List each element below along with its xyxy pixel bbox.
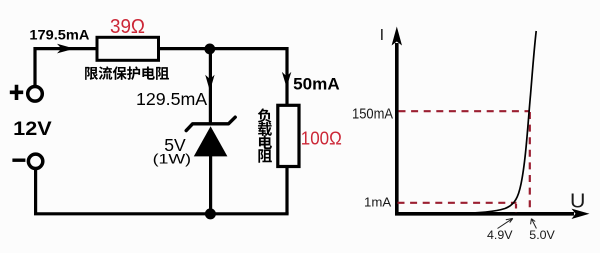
plus sign [10, 85, 23, 100]
svg-text:150mA: 150mA [352, 106, 393, 123]
wire middle branch down to zener [209, 49, 212, 123]
terminal - circle [28, 154, 42, 168]
resistor R2 load box [278, 105, 299, 166]
wire R2 to bottom rail [285, 167, 288, 214]
node junction top [204, 44, 215, 55]
label 负载电阻 vertical [258, 108, 272, 122]
zener D1 anode triangle [194, 126, 228, 156]
arrow current 50mA [282, 72, 291, 88]
leader arrow 5.0V [531, 219, 537, 229]
wire zener to bottom rail [209, 156, 212, 214]
svg-text:39Ω: 39Ω [110, 16, 145, 38]
axis I arrowhead [392, 27, 402, 46]
graph axis U (horizontal) [395, 212, 574, 216]
svg-text:(1W): (1W) [153, 152, 192, 168]
bottom rail wire [36, 169, 289, 214]
svg-text:100Ω: 100Ω [301, 127, 342, 148]
svg-text:50mA: 50mA [293, 75, 340, 94]
svg-text:5.0V: 5.0V [529, 228, 555, 242]
svg-text:12V: 12V [13, 118, 52, 140]
svg-text:129.5mA: 129.5mA [136, 89, 207, 109]
label 限流保护电阻 [85, 67, 98, 80]
dashed line 150mA level [399, 110, 529, 112]
svg-text:I: I [380, 27, 384, 44]
svg-text:U: U [570, 190, 585, 212]
wire R1 to top-right corner [159, 49, 288, 106]
svg-text:4.9V: 4.9V [487, 228, 513, 242]
arrow current 129.5mA [205, 75, 214, 91]
terminal + circle [28, 87, 43, 102]
dashed line 1mA level [398, 202, 517, 204]
arrow current 179.5mA [57, 44, 75, 54]
svg-text:179.5mA: 179.5mA [29, 27, 89, 43]
zener D1 cathode bar [186, 117, 235, 130]
leader arrow 4.9V [498, 218, 513, 228]
dashed line 4.9V vertical [515, 204, 517, 212]
diode IV curve [455, 31, 536, 214]
dashed line 5.0V vertical [529, 112, 531, 212]
wire top-left from + terminal up and right to R1 [35, 49, 97, 87]
axis U arrowhead [572, 209, 590, 219]
node junction bottom [205, 208, 216, 219]
minus sign [12, 158, 25, 161]
graph axis I (vertical) [395, 43, 399, 216]
resistor R1 39ohm box [97, 37, 159, 60]
svg-text:1mA: 1mA [364, 195, 391, 210]
